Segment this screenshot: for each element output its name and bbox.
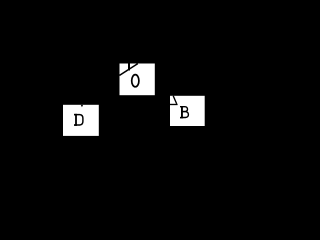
box D (white tile) bbox=[63, 105, 99, 136]
letter D glyph (slab-serif D) bbox=[74, 114, 83, 126]
diagonal line across box O corner bbox=[120, 64, 138, 76]
letter 0 glyph (oval ring) bbox=[132, 75, 139, 87]
notch marker on box D top edge bbox=[81, 105, 83, 107]
diagonal marker on box B corner bbox=[173, 96, 177, 104]
base line marker on box B bbox=[170, 104, 178, 105]
black screen background bbox=[0, 0, 207, 140]
flag pole marker on box O bbox=[128, 64, 130, 71]
letter B glyph (slab-serif B) bbox=[180, 106, 188, 118]
box O (white tile) bbox=[120, 64, 155, 96]
box B (white tile) bbox=[170, 96, 205, 126]
